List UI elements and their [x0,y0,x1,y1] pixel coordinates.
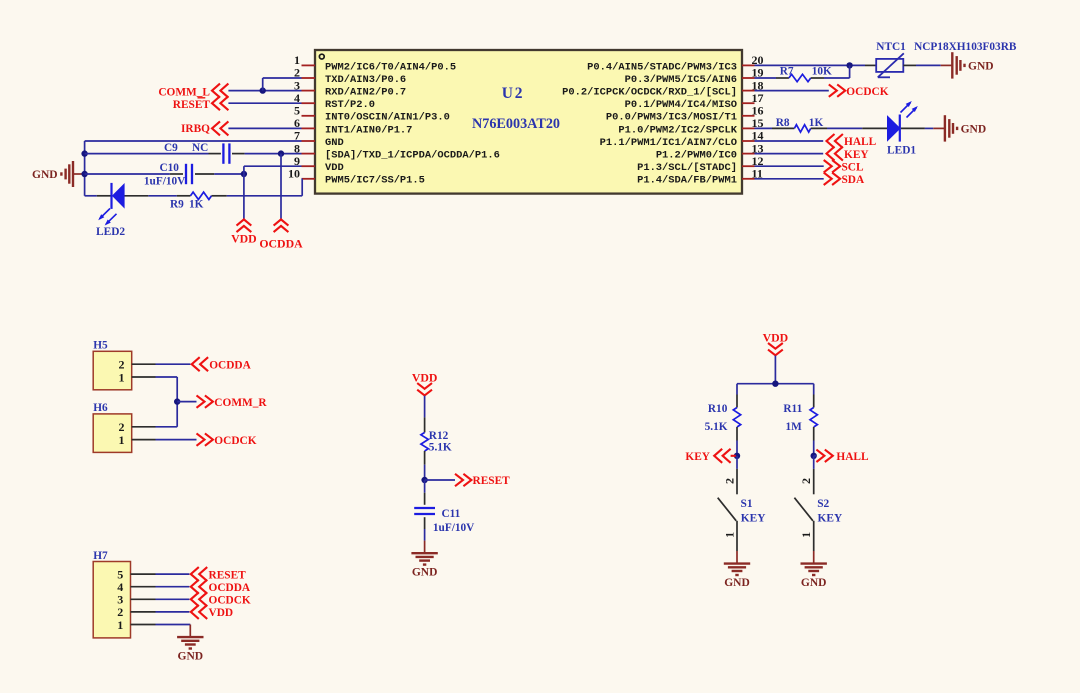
U2 pin 4 RST/P2.0 [294,91,375,111]
svg-text:OCDCK: OCDCK [846,86,888,98]
connector H6 [93,402,155,452]
svg-text:HALL: HALL [836,451,869,463]
svg-text:P0.0/PWM3/IC3/MOSI/T1: P0.0/PWM3/IC3/MOSI/T1 [606,112,737,124]
wire pin18 OCDCK [755,90,829,92]
wire junction to C11 [424,480,426,493]
wire H5 pin2 OCDDA [156,363,191,365]
wire C10 row left [85,173,170,175]
svg-text:R9: R9 [170,199,184,211]
svg-text:U2: U2 [502,85,525,102]
svg-text:P0.2/ICPCK/OCDCK/RXD_1/[SCL]: P0.2/ICPCK/OCDCK/RXD_1/[SCL] [562,87,737,99]
svg-text:P1.1/PWM1/IC1/AIN7/CLO: P1.1/PWM1/IC1/AIN7/CLO [600,137,737,149]
svg-text:P1.3/SCL/[STADC]: P1.3/SCL/[STADC] [637,162,737,174]
ground GND at S2 [801,551,827,589]
U2 pin 7 GND [294,129,344,149]
power port VDD right [763,330,789,355]
U2 pin 17 P0.1/PWM4/IC4/MISO [625,91,764,111]
svg-text:1: 1 [119,433,125,447]
wire C9 row left segment [85,153,209,155]
wire pin19 to R7 [755,77,777,79]
IC U2 body [315,50,742,194]
svg-text:KEY: KEY [844,149,869,161]
svg-text:1: 1 [117,618,123,632]
net label OCDCK [829,84,889,97]
wire COMM_L to pin3 [228,90,301,92]
svg-text:1: 1 [119,370,125,384]
resistor R10 5.1K [705,395,741,441]
svg-text:INT1/AIN0/P1.7: INT1/AIN0/P1.7 [325,124,412,136]
svg-text:C11: C11 [442,508,461,520]
svg-text:NTC1: NTC1 [876,41,906,53]
ground GND at S1 [724,551,750,589]
svg-text:C9: C9 [164,142,178,154]
wire C9 to pin8 [245,153,302,155]
U2 pin 11 P1.4/SDA/FB/PWM1 [637,167,763,187]
junction NTC node [846,62,852,68]
resistor R9 1K [170,192,227,210]
svg-text:SCL: SCL [842,161,865,173]
svg-text:IRBQ: IRBQ [181,123,210,135]
switch S1 KEY [718,456,767,551]
connector H5 [93,340,155,390]
svg-text:GND: GND [412,567,438,579]
wire C11 to GND [424,529,426,541]
svg-text:VDD: VDD [412,371,438,385]
svg-text:5.1K: 5.1K [705,421,728,433]
wire H7 pin3 [156,598,190,600]
svg-text:KEY: KEY [818,513,843,525]
wire pin13 KEY [755,153,824,155]
net label OCDDA at H7 [191,580,251,594]
svg-text:10K: 10K [812,66,832,78]
svg-text:R8: R8 [776,117,790,129]
svg-text:COMM_L: COMM_L [158,86,210,98]
junction OCDDA [278,150,284,156]
wire pin11 SDA [755,178,824,180]
svg-text:P1.0/PWM2/IC2/SPCLK: P1.0/PWM2/IC2/SPCLK [618,124,737,136]
power port OCDDA [259,219,303,250]
net label HALL right [827,134,877,148]
junction VDD tee [772,381,778,387]
U2 pin 6 INT1/AIN0/P1.7 [294,116,412,136]
svg-text:R10: R10 [708,403,728,415]
U2 pin 1 PWM2/IC6/T0/AIN4/P0.5 [294,53,456,73]
U2 pin 19 P0.3/PWM5/IC5/AIN6 [625,66,764,86]
wire to R11 [813,384,815,395]
svg-text:1K: 1K [809,117,824,129]
svg-text:10: 10 [288,167,300,181]
svg-text:GND: GND [178,651,204,663]
capacitor C9 [164,142,245,164]
ground GND middle [411,541,437,579]
resistor R11 1M [783,395,817,441]
junction node COMM_L [260,87,266,93]
wire OCDDA vertical [280,154,282,220]
LED D2 LED2 [96,183,148,238]
net label OCDCK at H7 [191,592,251,606]
svg-text:P1.2/PWM0/IC0: P1.2/PWM0/IC0 [656,150,737,162]
wire RESET stub [425,479,455,481]
U2 pin 12 P1.3/SCL/[STADC] [637,154,763,174]
svg-text:NC: NC [192,142,208,154]
capacitor C11 1uF/10V [414,493,475,535]
svg-text:1: 1 [799,532,813,538]
wire R12 to junction [424,465,426,480]
svg-text:P0.4/AIN5/STADC/PWM3/IC3: P0.4/AIN5/STADC/PWM3/IC3 [587,61,737,73]
svg-text:P0.3/PWM5/IC5/AIN6: P0.3/PWM5/IC5/AIN6 [625,74,737,86]
svg-text:GND: GND [32,169,58,181]
U2 pin 13 P1.2/PWM0/IC0 [656,141,764,161]
net label IRBQ [181,121,228,135]
connector H7 [93,550,155,638]
wire to H6 pin2 [156,426,178,428]
switch S2 KEY [794,456,843,551]
svg-text:OCDDA: OCDDA [209,360,251,372]
wire H7 pin2 [156,611,190,613]
wire LED1 to GND [925,127,933,129]
wire junction up to pin2 [263,78,302,91]
junction KEY node [734,453,740,459]
junction COMM_R [174,398,180,404]
wire bottom row from pin10 [227,179,303,196]
svg-text:RST/P2.0: RST/P2.0 [325,99,375,111]
net label RESET at H7 [191,567,246,581]
svg-text:N76E003AT20: N76E003AT20 [472,116,560,132]
junction RESET node [421,477,427,483]
svg-text:VDD: VDD [325,162,344,174]
svg-text:KEY: KEY [685,451,710,463]
svg-text:1M: 1M [786,421,803,433]
U2 pin 18 P0.2/ICPCK/OCDCK/RXD_1/[SCL] [562,78,763,98]
net label RESET middle [455,474,510,487]
svg-text:GND: GND [724,577,750,589]
net label KEY bottom [685,449,735,463]
power port VDD middle [412,371,438,396]
junction HALL node [811,453,817,459]
svg-text:VDD: VDD [209,607,234,619]
svg-text:OCDCK: OCDCK [214,435,256,447]
net label SCL [824,160,864,173]
wire H6 pin1 OCDCK [156,439,197,441]
U2 pin 3 RXD/AIN2/P0.7 [294,78,406,98]
ground GND at H7 [177,625,203,663]
ground GND at LED1 [933,115,986,141]
wire IRBQ to pin6 [228,127,301,129]
U2 pin 20 P0.4/AIN5/STADC/PWM3/IC3 [587,53,763,73]
svg-text:OCDDA: OCDDA [209,582,251,594]
U2 pin 8 [SDA]/TXD_1/ICPDA/OCDDA/P1.6 [294,141,500,161]
net label HALL bottom [814,450,869,463]
wire VDD to R12 [424,396,426,418]
wire H7 pin4 [156,586,190,588]
svg-text:HALL: HALL [844,136,877,148]
wire VDD vertical [243,174,245,219]
wire NTC to GND [916,64,941,66]
wire VDD down [774,356,776,384]
resistor R7 10K [776,66,832,82]
svg-text:VDD: VDD [231,232,257,246]
LED D1 LED1 [862,101,925,156]
svg-text:P1.4/SDA/FB/PWM1: P1.4/SDA/FB/PWM1 [637,175,737,187]
net label KEY right [827,147,869,161]
svg-text:1: 1 [722,532,736,538]
U2 pin 14 P1.1/PWM1/IC1/AIN7/CLO [600,129,764,149]
svg-text:[SDA]/TXD_1/ICPDA/OCDDA/P1.6: [SDA]/TXD_1/ICPDA/OCDDA/P1.6 [325,150,500,162]
resistor R12 5.1K [421,417,452,464]
net label COMM_R [197,395,268,408]
svg-text:RESET: RESET [209,569,247,581]
svg-text:1uF/10V: 1uF/10V [144,175,186,187]
svg-text:TXD/AIN3/P0.6: TXD/AIN3/P0.6 [325,74,406,86]
svg-text:P0.1/PWM4/IC4/MISO: P0.1/PWM4/IC4/MISO [625,99,737,111]
svg-text:RESET: RESET [473,475,511,487]
junction GND C10 [81,171,87,177]
svg-text:R11: R11 [783,403,802,415]
svg-text:RXD/AIN2/P0.7: RXD/AIN2/P0.7 [325,87,406,99]
svg-text:H7: H7 [93,550,108,562]
svg-text:2: 2 [799,478,813,484]
wire pin15 to R8 [755,127,773,129]
svg-text:OCDDA: OCDDA [259,236,303,250]
wire jog to pin9 [244,166,302,174]
U2 pin 10 PWM5/IC7/SS/P1.5 [288,167,425,187]
wire VDD tee [737,383,814,385]
net label SDA [824,173,865,186]
svg-text:1K: 1K [189,199,204,211]
wire H7 pin5 [156,573,190,575]
wire R7 up to NTC node [824,65,850,78]
U2 pin 16 P0.0/PWM3/IC3/MOSI/T1 [606,104,764,124]
wire to R10 [736,384,738,395]
svg-text:VDD: VDD [763,330,789,344]
svg-text:PWM5/IC7/SS/P1.5: PWM5/IC7/SS/P1.5 [325,175,425,187]
svg-text:LED1: LED1 [887,144,916,156]
svg-text:S2: S2 [817,498,829,510]
U2 pin 9 VDD [294,154,344,174]
svg-text:H6: H6 [93,402,108,414]
wire LED2 to corner [85,195,97,197]
wire pin14 HALL [755,140,824,142]
svg-text:1uF/10V: 1uF/10V [433,522,475,534]
svg-text:R7: R7 [780,66,794,78]
svg-text:2: 2 [722,478,736,484]
wire R9 to LED2 [148,195,176,197]
svg-text:GND: GND [325,137,344,149]
svg-text:COMM_R: COMM_R [214,397,267,409]
resistor R8 1K [772,117,827,132]
wire R10 to KEY node [736,441,738,456]
svg-text:PWM2/IC6/T0/AIN4/P0.5: PWM2/IC6/T0/AIN4/P0.5 [325,61,456,73]
wire H7 pin1 to GND [156,624,191,626]
svg-text:C10: C10 [160,162,180,174]
wire R8 to LED1 [827,127,862,129]
wire pin12 SCL [755,165,824,167]
svg-text:KEY: KEY [741,513,766,525]
svg-text:OCDCK: OCDCK [209,595,251,607]
capacitor C10 1uF/10V [144,162,214,188]
wire RESET to pin4 [228,102,301,104]
svg-text:R12: R12 [429,430,449,442]
wire pin7 left and down [85,141,302,196]
net label VDD at H7 [191,605,233,619]
svg-text:S1: S1 [741,498,753,510]
svg-text:GND: GND [801,577,827,589]
U2 pin 2 TXD/AIN3/P0.6 [294,66,406,86]
net label OCDDA at H5 [192,357,252,371]
svg-text:INT0/OSCIN/AIN1/P3.0: INT0/OSCIN/AIN1/P3.0 [325,112,450,124]
thermistor NTC1 NCP18XH103F03RB [865,41,1017,77]
svg-text:5.1K: 5.1K [429,442,452,454]
wire COMM_R stub [177,401,196,403]
junction C9 left [81,150,87,156]
wire H5 pin1 down [156,377,178,427]
net label RESET [173,96,229,111]
svg-text:NCP18XH103F03RB: NCP18XH103F03RB [914,41,1017,53]
wire R11 to HALL node [813,441,815,456]
wire pin20 to NTC [755,64,866,66]
svg-text:GND: GND [968,60,994,72]
wire C10 to VDD junction [214,173,244,175]
U2 pin 5 INT0/OSCIN/AIN1/P3.0 [294,104,450,124]
ground GND left side [32,161,85,187]
net label OCDCK at H6 [197,433,257,446]
power port VDD [231,219,257,245]
svg-text:H5: H5 [93,340,108,352]
svg-text:LED2: LED2 [96,226,125,238]
svg-text:SDA: SDA [842,174,866,186]
U2 pin 15 P1.0/PWM2/IC2/SPCLK [618,116,763,136]
svg-text:GND: GND [961,123,987,135]
net label COMM_L [158,84,228,99]
svg-text:RESET: RESET [173,99,211,111]
junction VDD node [241,171,247,177]
ground GND at NTC [941,52,994,78]
